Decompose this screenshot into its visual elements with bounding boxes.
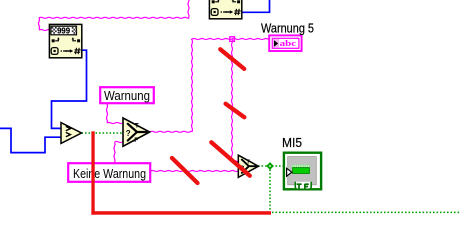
wire: string wire junction square bbox=[230, 37, 235, 42]
wire: thick red horizontal wire segment bbox=[91, 211, 271, 215]
svg-text:F: F bbox=[134, 137, 138, 144]
marker: red slash 1 on vertical string wire bbox=[220, 49, 244, 69]
svg-text:T: T bbox=[135, 122, 139, 129]
wire: thick red vertical wire segment bbox=[91, 131, 94, 214]
wire: boolean dotted wire junction down to bottom run bbox=[269, 166, 271, 211]
function icon: Select node 2 bbox=[238, 155, 258, 177]
wire: string wire from Select1 output up to Warnung5 indicator bbox=[150, 39, 270, 133]
wire: string wire from Keine-Warnung right edge to Select2 f input bbox=[151, 171, 239, 172]
indicator: Warnung 5 string indicator terminal bbox=[269, 35, 301, 51]
svg-text:999: 999 bbox=[57, 25, 70, 35]
wire: string wire top-left corner vertical to top edge bbox=[188, 0, 189, 18]
marker: red slash 3 on Keine-Warnung wire bbox=[172, 158, 198, 183]
function icon: Select node 1 bbox=[123, 118, 150, 146]
wire: string wire from Keine-Warnung label to Select1 f input bbox=[114, 142, 124, 163]
svg-text:abc: abc bbox=[280, 38, 297, 48]
indicator: MI5 boolean indicator terminal bbox=[284, 153, 321, 190]
wire: boolean dotted wire Select2 output to junction and MI5 bbox=[258, 165, 283, 167]
wire: boolean dotted wire bottom run to right edge bbox=[272, 211, 460, 213]
wire: numeric wire from icon1 output to comparison input 1 bbox=[52, 50, 87, 128]
wire: boolean dotted wire comparison output to Select1 s input bbox=[82, 132, 124, 134]
svg-text:Keine Warnung: Keine Warnung bbox=[73, 166, 146, 181]
wire: string wire branch down from junction to Select2 t input bbox=[232, 39, 239, 162]
function icon: Decimal String To Number #1 (999) bbox=[49, 24, 81, 57]
wire: string wire drop into Decimal-String-To-Number input bbox=[39, 18, 50, 31]
function icon: Decimal String To Number #2 (clipped at top) bbox=[209, 0, 241, 19]
node: boolean wire junction diamond bbox=[266, 162, 274, 170]
wire: string wire from Warnung label to Select1 t input bbox=[107, 104, 124, 124]
svg-text:?: ? bbox=[126, 129, 131, 138]
svg-text:MI5: MI5 bbox=[282, 135, 302, 150]
label: Keine Warnung free label bbox=[68, 163, 150, 182]
marker: red slash 4 across Select node 2 bbox=[211, 142, 250, 175]
marker: red slash 2 on vertical string wire bbox=[226, 104, 245, 118]
function icon: comparison node (greater?) bbox=[61, 123, 82, 144]
wire: numeric wire from icon2 output to top edge bbox=[242, 0, 270, 12]
label: Warnung free label bbox=[100, 87, 154, 103]
svg-text:Warnung: Warnung bbox=[104, 88, 150, 103]
wire: string wire top-left horizontal segment bbox=[39, 17, 189, 18]
wire: numeric wire from left edge to comparison input 2 bbox=[0, 128, 62, 152]
svg-text:Warnung 5: Warnung 5 bbox=[261, 21, 314, 36]
